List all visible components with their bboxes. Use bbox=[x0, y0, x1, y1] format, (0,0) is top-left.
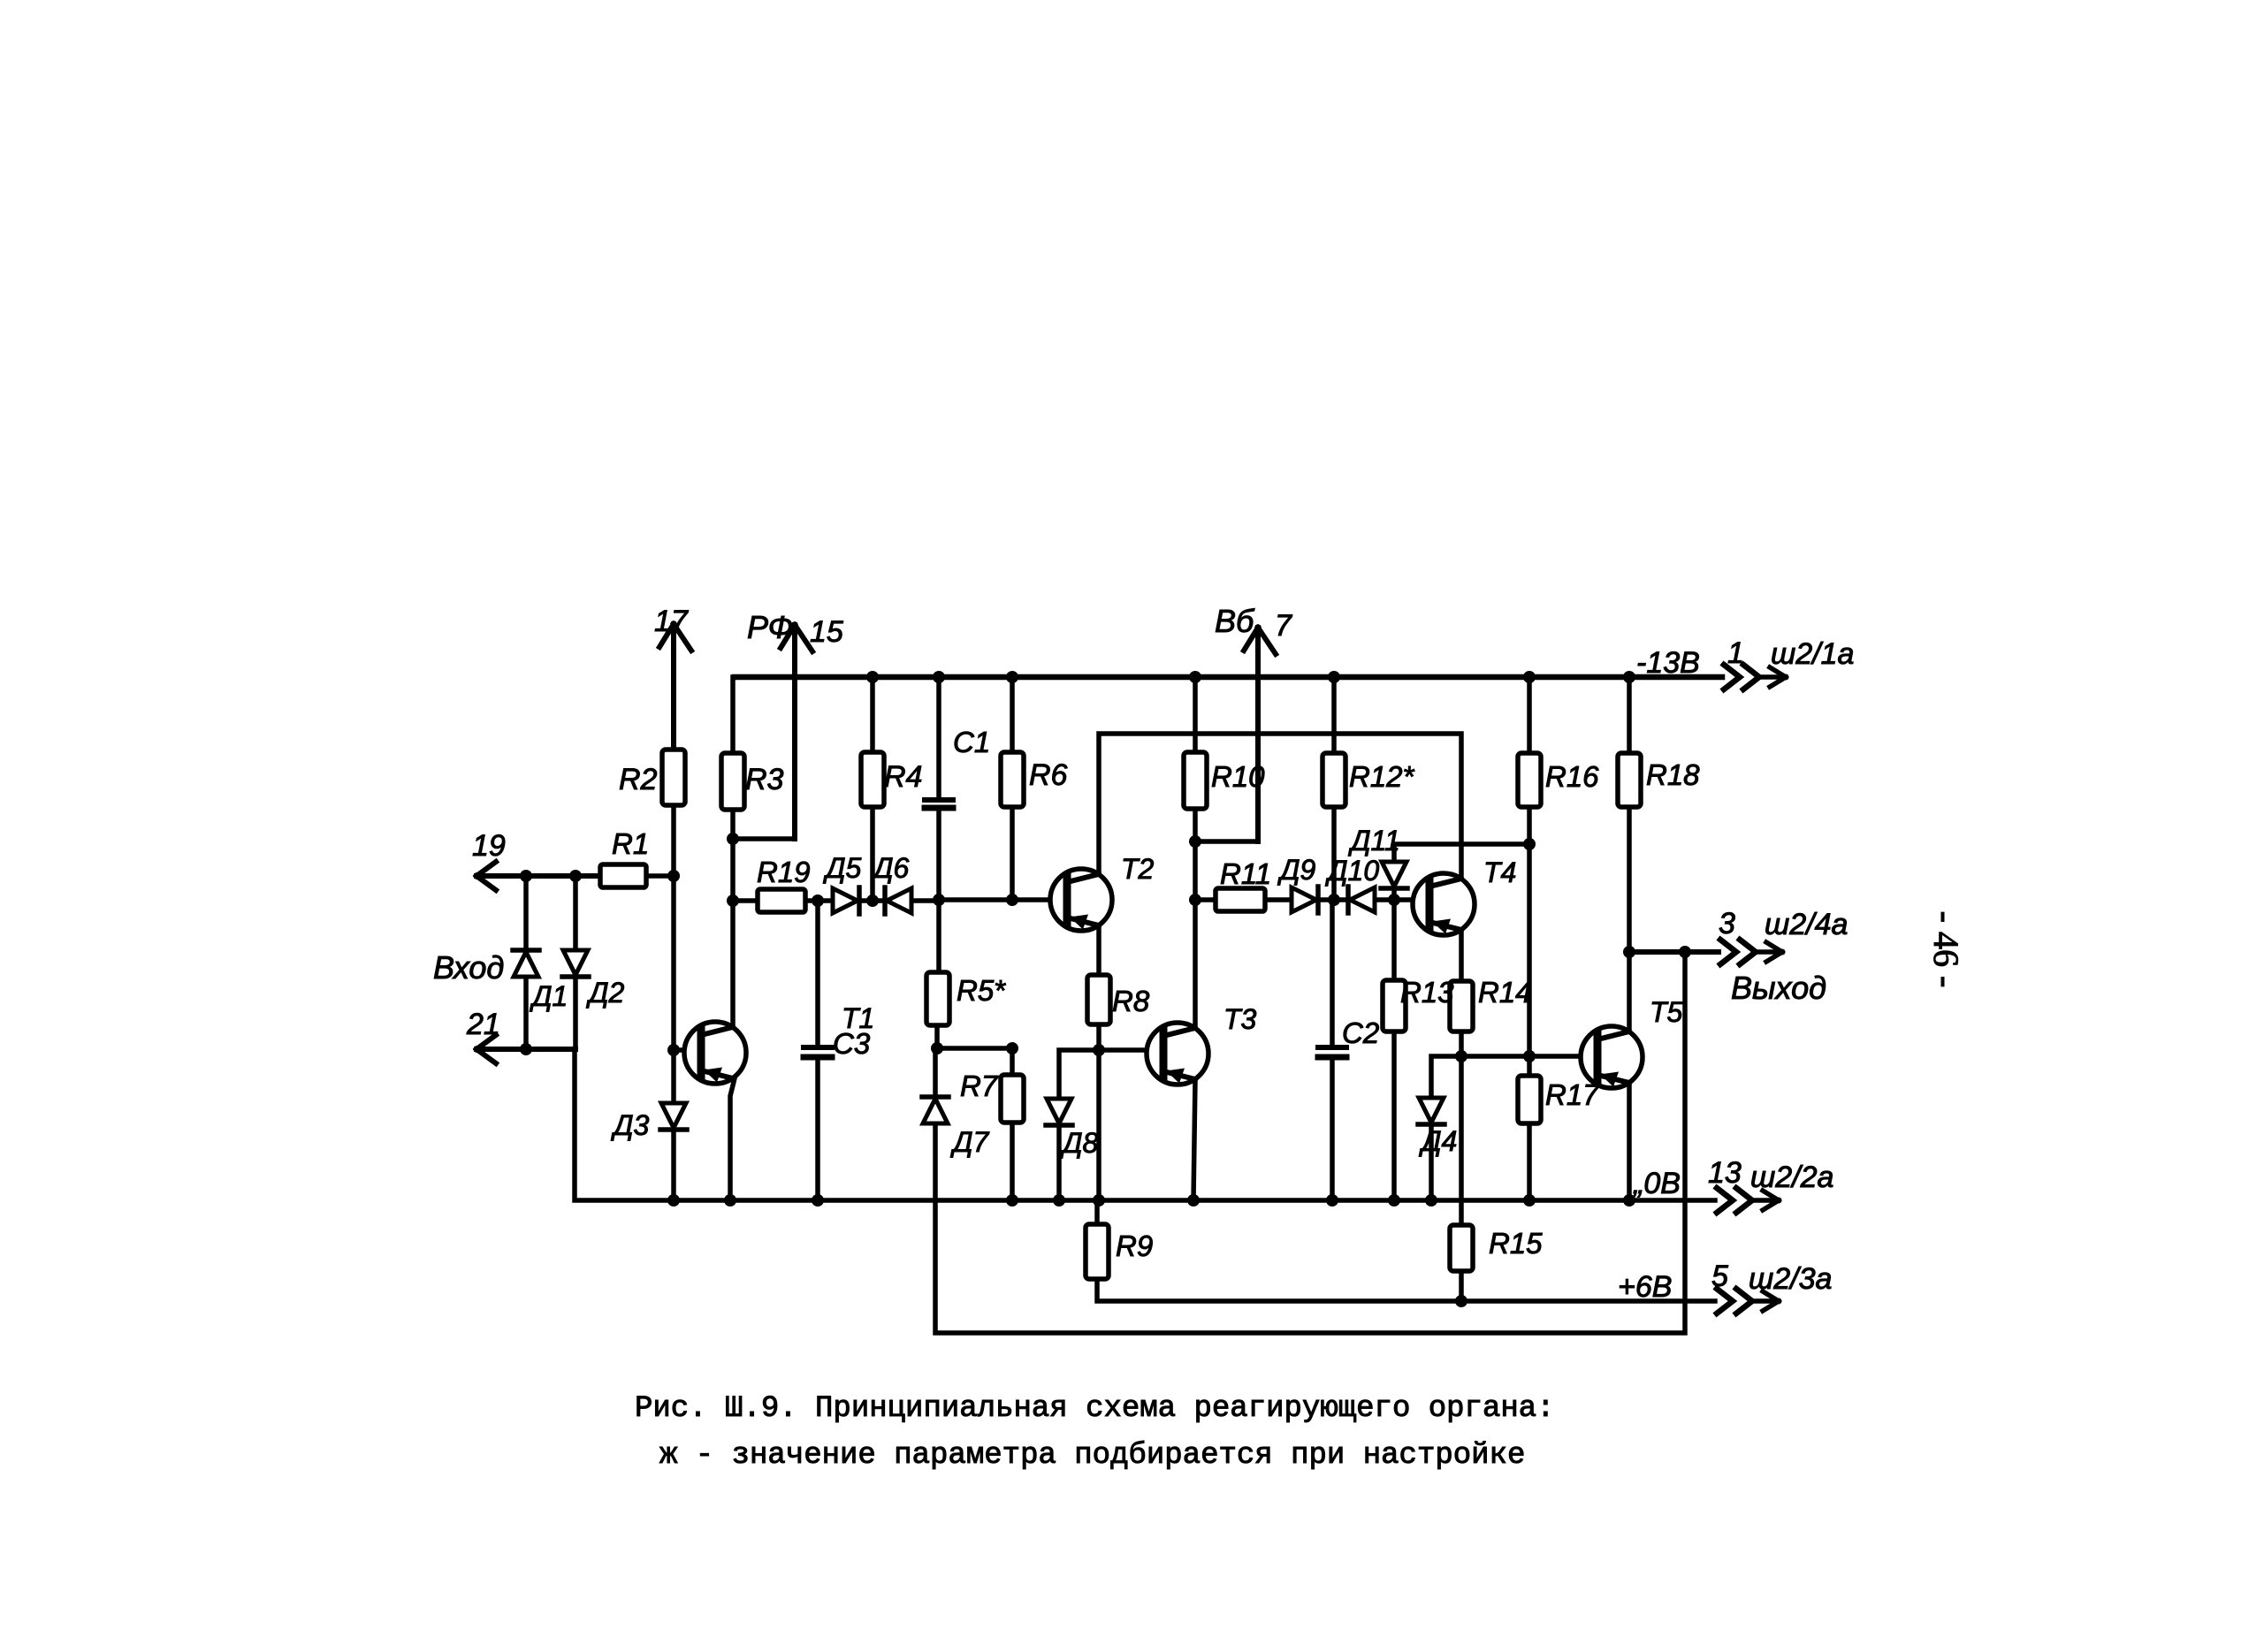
wire: C1 column bbox=[936, 677, 941, 900]
wire: R5 leads bbox=[937, 900, 939, 1048]
wire: T2 emitter to R8 bbox=[1096, 925, 1102, 975]
diode D10 bbox=[1348, 887, 1375, 913]
svg-text:3: 3 bbox=[1719, 907, 1735, 940]
label R11 bbox=[1220, 857, 1271, 890]
label T2 bbox=[1121, 853, 1155, 885]
node dot R11 left on T3 collector bbox=[1189, 894, 1201, 906]
svg-text:21: 21 bbox=[466, 1008, 500, 1041]
diode D2 bbox=[562, 950, 589, 977]
wire: R5 bottom to R7 top link bbox=[937, 1048, 1012, 1075]
svg-text:R3: R3 bbox=[745, 763, 784, 796]
resistor R8 bbox=[1087, 975, 1110, 1024]
node dot D5-D6-R4 bbox=[866, 895, 879, 907]
label C1 bbox=[953, 726, 990, 758]
svg-text:5: 5 bbox=[1711, 1260, 1728, 1293]
label R2 bbox=[619, 763, 658, 796]
label +6V bbox=[1618, 1270, 1672, 1304]
svg-text:Вход: Вход bbox=[433, 949, 504, 986]
node dot C3 top bbox=[812, 895, 824, 907]
wire: 0V bottom bus bbox=[575, 1049, 1715, 1200]
resistor R14 bbox=[1450, 981, 1473, 1032]
svg-text:R17: R17 bbox=[1545, 1078, 1600, 1111]
pin number 1 bbox=[1727, 636, 1744, 670]
wire: R7 bottom lead bbox=[1010, 1123, 1015, 1200]
label R8 bbox=[1112, 985, 1150, 1017]
label R4 bbox=[884, 760, 922, 794]
label D9 bbox=[1277, 854, 1316, 886]
label D3 bbox=[611, 1109, 650, 1141]
label D11 bbox=[1348, 825, 1400, 856]
wire: R8 bottom to 0V bus bbox=[1096, 1024, 1102, 1200]
label Vyhod (output) bbox=[1731, 970, 1826, 1006]
svg-text:R1: R1 bbox=[612, 827, 649, 860]
wire: D11 cathode lead bbox=[1391, 888, 1397, 900]
svg-text:Т4: Т4 bbox=[1483, 856, 1516, 888]
diode D3 bbox=[660, 1103, 687, 1130]
node dot D11 T4 base bbox=[1388, 894, 1400, 906]
label T4 bbox=[1483, 856, 1516, 888]
wire: D8 bottom lead bbox=[1056, 1125, 1062, 1200]
transistor T5 bbox=[1581, 1026, 1643, 1088]
node dot D1 on pin21 line bbox=[520, 1043, 532, 1055]
resistor R5* bbox=[926, 972, 949, 1025]
wire: R6 column bbox=[1010, 677, 1015, 900]
resistor R15 bbox=[1450, 1225, 1473, 1271]
wire: D7 column bbox=[933, 1048, 938, 1097]
wire: R9 top lead bbox=[1094, 1200, 1100, 1224]
svg-text:С1: С1 bbox=[953, 726, 990, 758]
svg-text:R19: R19 bbox=[757, 856, 811, 888]
node dot D11 anode R16 bbox=[1523, 838, 1536, 850]
label R15 bbox=[1489, 1227, 1543, 1260]
label D1 bbox=[530, 980, 568, 1012]
label D7 bbox=[950, 1126, 990, 1158]
svg-text:Д6: Д6 bbox=[871, 852, 910, 884]
pin number 7 bbox=[1275, 609, 1292, 643]
svg-text:Д2: Д2 bbox=[586, 977, 625, 1009]
wire: D6 anode to C1 column bbox=[911, 898, 939, 903]
resistor R9 bbox=[1086, 1224, 1109, 1279]
label T3 bbox=[1223, 1003, 1257, 1035]
node dot R6 on T2 base wire bbox=[1006, 894, 1018, 906]
svg-text:ш2/3а: ш2/3а bbox=[1749, 1262, 1832, 1296]
wire: T2 base wire bbox=[939, 897, 1068, 902]
svg-text:Д4: Д4 bbox=[1419, 1125, 1457, 1157]
node dot output on R18 column bbox=[1623, 946, 1635, 958]
resistor R4 bbox=[861, 752, 884, 807]
wire: R11 leads bbox=[1195, 897, 1292, 902]
label R5* bbox=[957, 974, 1006, 1007]
svg-text:„0В: „0В bbox=[1632, 1167, 1681, 1200]
label R16 bbox=[1545, 760, 1599, 793]
svg-text:Т1: Т1 bbox=[842, 1002, 874, 1034]
svg-text:R16: R16 bbox=[1545, 760, 1599, 793]
label D10 bbox=[1325, 855, 1379, 887]
wire: R1 right lead bbox=[646, 873, 675, 879]
wire: T4 emitter to R14 bbox=[1459, 930, 1464, 981]
svg-text:ш2/2а: ш2/2а bbox=[1750, 1161, 1833, 1194]
transistor T3 bbox=[1147, 1023, 1208, 1085]
label R19 bbox=[757, 856, 811, 888]
pin number 17 bbox=[654, 605, 689, 638]
wire: R10 bottom to VB column bbox=[1195, 642, 1258, 841]
wire: T3 collector column with R10 bbox=[1193, 677, 1198, 1028]
pin number 5 bbox=[1711, 1260, 1728, 1293]
svg-text:- 46 -: - 46 - bbox=[1926, 911, 1966, 988]
resistor R10 bbox=[1184, 752, 1207, 809]
wire: R4 column bbox=[870, 677, 875, 901]
node dot R8 bottom T3 base bbox=[1093, 1044, 1105, 1056]
wire: D4 bottom lead bbox=[1429, 1124, 1434, 1200]
wire: T5 emitter to 0V bus bbox=[1627, 1083, 1632, 1200]
label R1 bbox=[612, 827, 649, 860]
svg-text:Т3: Т3 bbox=[1223, 1003, 1257, 1035]
wire: C3 column bbox=[815, 901, 820, 1200]
wire: D10 anode to T4 base bbox=[1375, 897, 1429, 902]
pin number 3 bbox=[1719, 907, 1735, 940]
node dot R10 bottom VB bbox=[1189, 835, 1201, 848]
node dot R7 top bbox=[1006, 1042, 1018, 1054]
label R3 bbox=[745, 763, 784, 796]
resistor R13 bbox=[1383, 980, 1406, 1032]
arrow VB up (pin 7) bbox=[1244, 628, 1276, 841]
svg-text:R13: R13 bbox=[1400, 976, 1454, 1009]
svg-text:ш2/1а: ш2/1а bbox=[1771, 637, 1854, 671]
label Vhod (input) bbox=[433, 949, 504, 986]
svg-text:R8: R8 bbox=[1112, 985, 1150, 1017]
wire: R15 bottom lead bbox=[1459, 1271, 1464, 1301]
wire: D1 column bbox=[523, 876, 529, 1049]
node dots on 0V bus bbox=[667, 1194, 1635, 1207]
svg-text:Д3: Д3 bbox=[611, 1109, 650, 1141]
svg-text:R10: R10 bbox=[1211, 760, 1265, 793]
wire: R13 column bbox=[1391, 900, 1397, 1200]
label sh2/1a bbox=[1771, 637, 1854, 671]
arrow 17 up bbox=[659, 624, 691, 750]
wire: column of arrow17/R2/T1-base/D3 bbox=[671, 805, 676, 1200]
label sh2/2a bbox=[1750, 1161, 1833, 1194]
diode D4 bbox=[1418, 1098, 1445, 1124]
diode D6 bbox=[885, 887, 911, 914]
wire: R16 column bbox=[1527, 677, 1532, 1056]
diode D1 bbox=[513, 950, 539, 977]
svg-text:ж - значение параметра подбира: ж - значение параметра подбирается при н… bbox=[659, 1439, 1525, 1473]
resistor R12* bbox=[1323, 753, 1345, 807]
node dot R19 left bbox=[727, 895, 739, 907]
wire: R12 column bbox=[1331, 677, 1337, 900]
svg-text:1: 1 bbox=[1727, 636, 1744, 670]
svg-text:R18: R18 bbox=[1646, 758, 1700, 791]
label R13 bbox=[1400, 976, 1454, 1009]
svg-text:Д8: Д8 bbox=[1060, 1127, 1099, 1159]
svg-text:R4: R4 bbox=[884, 760, 922, 794]
wire: T1 base lead bbox=[674, 1047, 701, 1053]
resistor R6 bbox=[1001, 752, 1024, 807]
connector arrow output 1 / sh2-1a (-13V) bbox=[1724, 665, 1786, 689]
capacitor C1 bbox=[925, 800, 953, 808]
pin number 15 bbox=[810, 615, 843, 649]
svg-text:Д10: Д10 bbox=[1325, 855, 1379, 887]
label D6 bbox=[871, 852, 910, 884]
resistor R16 bbox=[1518, 753, 1541, 807]
resistor R11 bbox=[1216, 888, 1265, 911]
svg-text:С2: С2 bbox=[1342, 1016, 1379, 1049]
wire: R19 leads bbox=[733, 898, 834, 903]
diode D8 bbox=[1046, 1099, 1072, 1125]
label D8 bbox=[1060, 1127, 1099, 1159]
node dot R3 bottom loop bbox=[727, 833, 739, 845]
node dot C1-R5 on T2 base wire bbox=[933, 894, 945, 906]
wire: T5 collector / R18 column bbox=[1627, 677, 1632, 1030]
svg-text:7: 7 bbox=[1275, 609, 1292, 643]
svg-text:15: 15 bbox=[810, 615, 843, 649]
label RF bbox=[747, 609, 793, 645]
pin number 19 bbox=[472, 829, 506, 863]
svg-text:13: 13 bbox=[1708, 1156, 1742, 1190]
svg-text:R15: R15 bbox=[1489, 1227, 1543, 1260]
svg-text:R5*: R5* bbox=[957, 974, 1006, 1007]
wire: +6V bus from R9 bottom bbox=[1097, 1279, 1715, 1301]
wire: -13V top bus bbox=[735, 674, 1722, 681]
wire: D2 column bbox=[573, 876, 578, 1049]
svg-text:R9: R9 bbox=[1116, 1229, 1153, 1262]
connector arrow output 13 / sh2-2a (0V) bbox=[1717, 1188, 1779, 1213]
wire: T1 emitter to 0V bus bbox=[730, 1078, 735, 1200]
label -13V bbox=[1636, 646, 1700, 680]
svg-text:R12*: R12* bbox=[1349, 760, 1415, 793]
capacitor C2 bbox=[1318, 1047, 1346, 1057]
resistor R19 bbox=[758, 889, 805, 912]
pin number 21 bbox=[466, 1008, 500, 1041]
caption line 2 bbox=[659, 1439, 1525, 1473]
connector arrow output 3 / sh2-4a bbox=[1720, 940, 1782, 964]
wire: D5-D6 junction lead bbox=[859, 898, 885, 903]
node dot D9-D10-R12 bbox=[1328, 894, 1340, 906]
transistor T1 bbox=[684, 1022, 746, 1084]
wire: R14 column down to R15 bbox=[1459, 1032, 1464, 1225]
label R12* bbox=[1349, 760, 1415, 793]
svg-text:ш2/4а: ш2/4а bbox=[1765, 908, 1848, 941]
diode D11 bbox=[1381, 862, 1407, 888]
svg-text:Т5: Т5 bbox=[1650, 996, 1683, 1028]
page number 46 rotated bbox=[1926, 911, 1966, 988]
node dot R16 R17 T5 base bbox=[1523, 1050, 1536, 1062]
node dot R15 on +6V bus bbox=[1455, 1295, 1467, 1307]
node dot T1 base bbox=[667, 1044, 680, 1056]
svg-text:Д5: Д5 bbox=[823, 852, 862, 884]
svg-text:Т2: Т2 bbox=[1121, 853, 1155, 885]
node dot R5 bottom D7 top bbox=[931, 1042, 943, 1054]
label R9 bbox=[1116, 1229, 1153, 1262]
svg-text:Д9: Д9 bbox=[1277, 854, 1316, 886]
label R7 bbox=[960, 1070, 999, 1102]
pin number 13 bbox=[1708, 1156, 1742, 1190]
wire: R12-C2 column bbox=[1330, 900, 1335, 1200]
resistor R17 bbox=[1518, 1076, 1541, 1123]
wire: input line pin 21 with left arrow bbox=[476, 1035, 576, 1063]
label D4 bbox=[1419, 1125, 1457, 1157]
label Vb bbox=[1215, 603, 1255, 639]
label T5 bbox=[1650, 996, 1683, 1028]
wire: T3 base wire with D8 branch bbox=[1059, 1050, 1163, 1100]
svg-text:R6: R6 bbox=[1029, 758, 1068, 792]
svg-text:R14: R14 bbox=[1478, 976, 1532, 1009]
label R6 bbox=[1029, 758, 1068, 792]
node dot feedback on output line bbox=[1679, 946, 1691, 958]
label R18 bbox=[1646, 758, 1700, 791]
label R17 bbox=[1545, 1078, 1600, 1111]
wire: D9 cathode lead bbox=[1318, 897, 1347, 902]
svg-text:R11: R11 bbox=[1220, 857, 1271, 890]
capacitor C3 bbox=[804, 1047, 832, 1057]
svg-text:Рис. Ш.9. Принципиальная схема: Рис. Ш.9. Принципиальная схема реагирующ… bbox=[635, 1392, 1555, 1426]
label R10 bbox=[1211, 760, 1265, 793]
caption line 1 bbox=[635, 1392, 1555, 1426]
label T1 bbox=[842, 1002, 874, 1034]
node dot R14 bottom T5 base bbox=[1455, 1050, 1467, 1062]
wire: input line pin 19 with left arrow bbox=[476, 862, 600, 890]
label D5 bbox=[823, 852, 862, 884]
resistor R18 bbox=[1618, 753, 1641, 807]
svg-text:R2: R2 bbox=[619, 763, 658, 796]
wire: loop R3 bottom to RF line bbox=[733, 639, 795, 839]
wire: feedback line from D7 anode to output column bbox=[935, 952, 1685, 1333]
transistor T4 bbox=[1413, 873, 1475, 935]
svg-text:-13В: -13В bbox=[1636, 646, 1700, 680]
label sh2/4a bbox=[1765, 908, 1848, 941]
svg-text:R7: R7 bbox=[960, 1070, 999, 1102]
node dots on -13V bus bbox=[866, 671, 1635, 683]
transistor T2 bbox=[1050, 869, 1112, 931]
wire: T1 collector column with R3 bbox=[730, 677, 736, 1025]
svg-text:Д7: Д7 bbox=[950, 1126, 990, 1158]
svg-text:Вб: Вб bbox=[1215, 603, 1255, 639]
wire: output line to sh2-4a bbox=[1627, 949, 1719, 955]
wire: T3 emitter to 0V bus bbox=[1193, 1079, 1195, 1200]
resistor R1 bbox=[600, 864, 646, 887]
label C2 bbox=[1342, 1016, 1379, 1049]
svg-text:+6В: +6В bbox=[1618, 1270, 1672, 1304]
connector arrow output 5 / sh2-3a (+6V) bbox=[1717, 1289, 1779, 1313]
label C3 bbox=[833, 1027, 871, 1060]
diode D7 bbox=[922, 1097, 949, 1123]
svg-text:Д11: Д11 bbox=[1348, 825, 1400, 856]
node dots on pin19 input line bbox=[520, 870, 680, 882]
label 0V bbox=[1632, 1167, 1681, 1200]
svg-text:Д1: Д1 bbox=[530, 980, 568, 1012]
svg-text:РФ: РФ bbox=[747, 609, 793, 645]
diode D5 bbox=[833, 887, 859, 914]
resistor R3 bbox=[721, 753, 744, 810]
label sh2/3a bbox=[1749, 1262, 1832, 1296]
resistor R2 bbox=[662, 750, 685, 805]
svg-text:17: 17 bbox=[654, 605, 689, 638]
label R14 bbox=[1478, 976, 1532, 1009]
wire: second bus joining T2 and T4 collectors bbox=[1099, 734, 1461, 879]
wire: T5 base wire with D4 branch bbox=[1431, 1056, 1597, 1098]
label D2 bbox=[586, 977, 625, 1009]
diode D9 bbox=[1292, 887, 1318, 913]
svg-text:19: 19 bbox=[472, 829, 506, 863]
resistor R7 bbox=[1001, 1075, 1024, 1123]
arrow RF up (pin 15) bbox=[781, 625, 812, 839]
wire: R17 leads bbox=[1527, 1056, 1532, 1200]
svg-text:Выход: Выход bbox=[1731, 970, 1826, 1006]
wire: D11 loop to R16 column bbox=[1394, 844, 1529, 862]
